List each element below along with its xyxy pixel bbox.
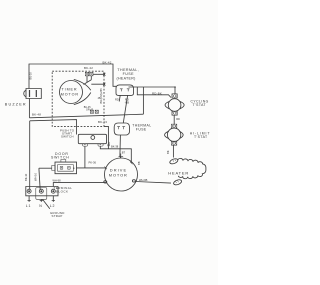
svg-text:BK-42: BK-42 [103,60,112,64]
svg-text:BK-42: BK-42 [84,66,93,70]
svg-text:BK (DM)-265: BK (DM)-265 [99,88,103,104]
svg-text:T'STAT: T'STAT [193,103,207,107]
svg-text:L1: L1 [26,204,32,208]
svg-text:T'STAT: T'STAT [194,135,208,139]
svg-text:HEATER: HEATER [168,170,189,175]
svg-text:SWITCH: SWITCH [61,135,74,139]
svg-text:BK-10: BK-10 [24,173,28,181]
svg-text:N: N [39,204,42,208]
svg-text:STRAP: STRAP [52,214,63,218]
svg-text:PK-36: PK-36 [89,160,97,164]
svg-text:RD: RD [176,117,180,121]
svg-text:BU-10: BU-10 [28,72,32,80]
svg-text:BK-38: BK-38 [111,145,119,149]
svg-text:OR-45: OR-45 [86,108,94,111]
svg-text:MOTOR: MOTOR [109,173,128,178]
svg-text:-BB: -BB [125,100,130,104]
svg-text:(HEATER): (HEATER) [117,76,136,80]
svg-text:WH-98: WH-98 [53,179,62,183]
svg-text:BT: BT [122,151,126,155]
svg-text:BUZZER: BUZZER [5,103,27,107]
svg-text:BK-48: BK-48 [32,112,41,116]
svg-text:WH-10: WH-10 [34,172,38,181]
svg-text:MOTOR: MOTOR [61,93,79,97]
svg-text:SWITCH: SWITCH [51,156,70,160]
svg-text:BB: BB [137,161,141,165]
svg-text:BLOCK: BLOCK [56,190,68,194]
svg-text:L2: L2 [50,204,56,208]
svg-text:BK-13: BK-13 [98,120,107,124]
svg-text:WH-9B: WH-9B [139,178,148,182]
svg-text:DRIVE: DRIVE [110,167,127,172]
svg-text:RD: RD [115,98,119,102]
svg-text:RD-BK: RD-BK [152,92,162,96]
svg-text:BK: BK [166,150,170,154]
svg-text:TIMER: TIMER [62,88,78,92]
svg-text:FUSE: FUSE [136,128,147,132]
